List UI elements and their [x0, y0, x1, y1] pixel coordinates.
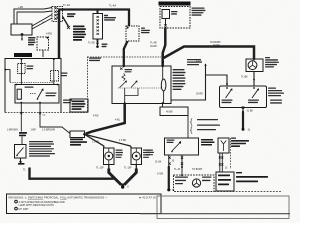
wire thick relay K1 feed [97, 10, 99, 14]
FPR resistor oval [161, 79, 166, 91]
fuse 1 dashed [18, 64, 26, 74]
ground funnel [109, 169, 137, 187]
wire switch exit [20, 158, 22, 161]
wire thick ground drop [242, 112, 244, 128]
fuse 2 dashed [51, 71, 59, 82]
connector box bottom right [216, 172, 234, 191]
wire from ignition switch lower terminal [32, 18, 52, 29]
connector internal merge [57, 8, 60, 19]
header bar fuel pump fuse [159, 2, 191, 6]
connector block X26 dashed box [52, 7, 63, 22]
dashed boundary bottom right [214, 191, 282, 193]
pin 30 tick left [122, 65, 126, 67]
wire to terminal box [40, 115, 70, 134]
wire M3 to pump box [253, 72, 255, 87]
internal dashed coupling [118, 87, 161, 89]
connector contact x marks [54, 7, 56, 20]
internal switch 1 [120, 82, 127, 88]
internal switch 2 [131, 82, 137, 88]
wires below solenoids [109, 165, 137, 170]
text block fuse note [28, 37, 36, 45]
M3 impeller [249, 61, 256, 67]
oil pressure switch box [15, 145, 27, 159]
wire diagonal to module connector [63, 17, 69, 27]
wire thick fuse feed down [163, 28, 166, 66]
switch contact right [253, 87, 255, 89]
wire second feed line [17, 11, 52, 24]
wire label 4-BROWN [20, 115, 22, 132]
dashed link line [10, 81, 53, 83]
base module dashed bottom boundary [5, 112, 88, 114]
M3 labels [265, 57, 279, 68]
switch labels inside [222, 100, 260, 104]
relay K9 box dashed [126, 26, 139, 41]
terminal box X22 [70, 131, 85, 138]
label box 40BK [160, 107, 188, 116]
K5 labels [25, 87, 57, 97]
fuel pump motor M3 box [246, 59, 263, 72]
wire fuse2 [53, 59, 55, 85]
blower motor circle [192, 179, 200, 187]
internal fuse label [125, 69, 133, 72]
K9 label [141, 28, 150, 34]
wire K1 ground exit [97, 39, 99, 44]
right box side labels [268, 88, 284, 104]
speed signal converter A5/2 [218, 138, 229, 153]
bottom right text rows [236, 172, 268, 182]
kickdown bottom wires [169, 155, 182, 167]
relay K5 fuel pump relay [15, 85, 59, 104]
legend list text [29, 141, 55, 157]
K1 internal contacts [97, 16, 99, 35]
wire thick branch to fuel pump motor [164, 47, 255, 60]
A5/2 ground wires [220, 153, 223, 172]
module boundary dashed [230, 138, 232, 169]
connector x mark [67, 26, 70, 29]
K1 label [104, 15, 116, 21]
ground bus wire [30, 168, 114, 179]
base module side labels [63, 100, 72, 104]
upper label block [187, 59, 202, 65]
fuse F34 inner box [162, 10, 170, 19]
wire thick from center box to injector feed [86, 104, 125, 134]
Y2 labels [143, 150, 151, 158]
wire feed from FPR box to right box [171, 75, 227, 100]
solenoid valve Y1 [104, 148, 115, 165]
center box side text block [173, 69, 186, 90]
wire down from ignition switch [21, 36, 23, 39]
coil feed stub [4, 69, 6, 71]
fuel pump relay module center box [112, 66, 171, 104]
wire thick +30 bus to relay and K9 [59, 10, 129, 27]
heater unit dashed box [174, 175, 215, 192]
wire thick feed down to base module [58, 10, 61, 59]
kickdown solenoid box [165, 138, 199, 155]
base module big box [5, 59, 61, 113]
fuse enclosure side labels [192, 8, 206, 16]
module text block dark [73, 26, 86, 41]
wire from ignition switch terminal [32, 15, 52, 27]
wire ground exit of right box [242, 106, 244, 108]
switch contact left [226, 87, 228, 89]
ignition switch wiper dot [21, 33, 24, 36]
Y1 labels [116, 150, 124, 158]
internal contact [120, 68, 123, 70]
legend box bottom left [7, 194, 162, 214]
label blob right of connector [67, 13, 76, 17]
fuse text blob [19, 132, 27, 136]
footer right note box [157, 196, 289, 219]
wire K9 to fuel pump relay box [124, 41, 128, 66]
fuse holder dashed box [37, 37, 49, 50]
fuel pumps relay switch box right [220, 86, 267, 108]
header bar ignition [14, 53, 32, 57]
heater ground wire [168, 167, 170, 189]
internal links [125, 88, 138, 96]
wire from +30 bus to connector fan [14, 8, 52, 25]
wire to kickdown [187, 116, 189, 139]
wire fan to solenoid valves [85, 134, 104, 148]
ground MAX label [102, 44, 108, 48]
ignition switch S2/1 box [11, 24, 32, 35]
heater texts [175, 177, 212, 185]
internal fuse zigzag [122, 74, 125, 81]
module label box upper [70, 99, 88, 112]
wire fuse to junction [165, 19, 167, 26]
A5/2 labels [231, 138, 249, 148]
wires to connector row [21, 103, 40, 115]
wire stub 4-RD [205, 64, 207, 75]
relay K1 overload protection relay [93, 14, 103, 40]
dashed boundary segment [88, 56, 162, 58]
relay K5 bottom terminals [20, 102, 22, 104]
wire kickdown right into heater box [181, 168, 183, 176]
wire fuse1 to relay K5 [20, 59, 22, 85]
kickdown labels [201, 139, 215, 146]
terminal block X7 dashed [87, 57, 89, 113]
fuse box dashed enclosure [160, 7, 190, 29]
wire fuse holder to base module [42, 50, 44, 57]
solenoid valve Y2 [131, 148, 142, 165]
